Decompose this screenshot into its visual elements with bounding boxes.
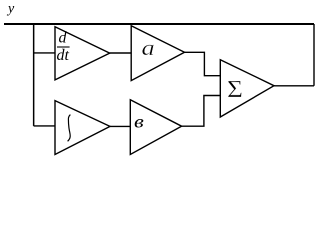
fraction bar of d/dt — [57, 46, 70, 48]
op-amp U5 summer sigma triangle — [220, 60, 274, 117]
svg-text:a: a — [142, 36, 155, 60]
wire branch to d/dt input — [34, 52, 55, 54]
wire left vertical drop — [33, 24, 35, 126]
op-amp U1 d/dt block triangle — [55, 27, 110, 80]
wire branch to integrator input — [34, 125, 56, 127]
op-amp U2 gain a block triangle — [131, 26, 184, 81]
wire d/dt output to a input — [110, 52, 132, 54]
wire sigma output — [274, 85, 314, 87]
wire right feedback rail — [313, 24, 315, 86]
wire integrator output to b input — [110, 125, 130, 127]
op-amp U3 integrator block triangle — [55, 101, 110, 155]
svg-text:y: y — [6, 2, 15, 17]
wire top rail — [4, 23, 314, 25]
svg-text:dt: dt — [57, 47, 70, 64]
svg-text:Σ: Σ — [227, 75, 243, 102]
op-amp U4 gain b block triangle — [130, 100, 181, 155]
svg-text:d: d — [59, 30, 68, 47]
svg-text:в: в — [134, 112, 144, 131]
wire b output to sigma lower input — [182, 96, 221, 127]
wire a output to sigma upper input — [185, 52, 221, 75]
integral symbol inside integrator — [68, 115, 71, 142]
